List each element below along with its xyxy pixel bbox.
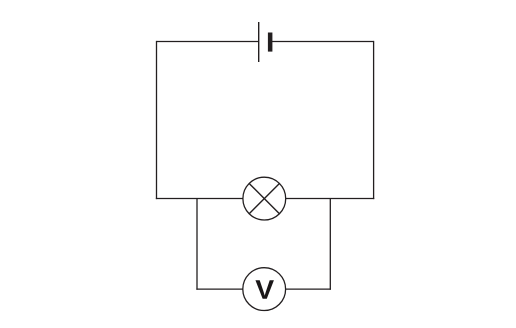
battery B1 negative plate (short thick) <box>268 33 273 52</box>
wire: bottom of loop through lamp node <box>156 198 374 200</box>
wire: top-left segment (left corner to battery positive plate) <box>157 41 259 43</box>
wire: left branch drop (junction to voltmeter row) <box>196 199 198 290</box>
wire: right branch drop (junction to voltmeter row) <box>329 199 331 290</box>
lamp L1 (circle with cross) <box>243 177 286 220</box>
wire: top-right segment (battery negative plate to right corner) <box>272 41 374 43</box>
wire: voltmeter row horizontal <box>196 288 331 290</box>
wire: right side of loop <box>373 41 375 199</box>
battery B1 positive plate (long thin) <box>258 22 260 62</box>
wire: left side of loop <box>156 41 158 199</box>
voltmeter V1 (circle with letter V) <box>243 268 286 311</box>
